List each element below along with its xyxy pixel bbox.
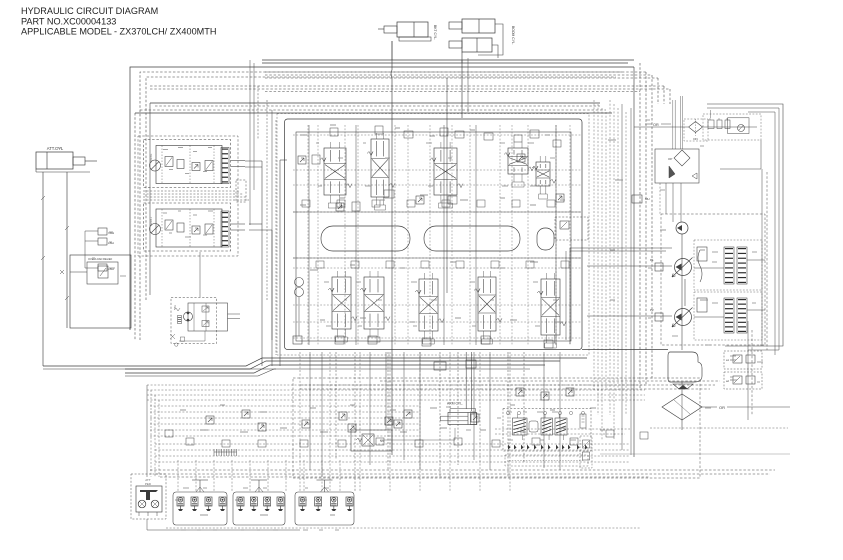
wire block bottom line xyxy=(582,349,668,351)
motor swing box xyxy=(170,252,240,346)
wire pilot risers xyxy=(178,460,340,492)
svg-text:OR: OR xyxy=(653,123,659,127)
wire bucket cylinder line xyxy=(391,41,392,455)
valve mid components xyxy=(298,130,650,211)
node OR top xyxy=(645,123,671,127)
wire regulator connects xyxy=(694,260,765,317)
svg-text:DN: DN xyxy=(693,137,697,141)
valve solenoid cluster lower xyxy=(505,455,588,466)
valve pilot cluster 1 xyxy=(173,480,227,525)
valve spool SP9 xyxy=(474,271,502,344)
label texture marks 2 xyxy=(57,120,764,530)
svg-text:HYDRAULIC CIRCUIT DIAGRAM: HYDRAULIC CIRCUIT DIAGRAM xyxy=(21,6,158,16)
valve spool SP2 xyxy=(367,133,395,210)
valve block inner solid xyxy=(296,132,571,341)
wire left-to-center 1 xyxy=(245,161,272,366)
wire arm line2 xyxy=(380,428,455,440)
wire top bus solid a xyxy=(262,59,634,61)
gallery racetrack right xyxy=(424,226,520,251)
valve pilot checks xyxy=(206,388,574,432)
wire outer solid frame xyxy=(130,67,634,330)
valve spool SP10 xyxy=(537,273,566,348)
valve pedal box ATT xyxy=(131,474,300,530)
valve block small row upper xyxy=(302,200,555,207)
regulator stack R1 xyxy=(694,240,762,290)
title text block xyxy=(21,6,216,37)
valve spool SP5 xyxy=(532,156,556,199)
wire far-right frame xyxy=(707,104,783,420)
wire main bus band xyxy=(43,358,587,376)
svg-text:P1: P1 xyxy=(650,258,654,262)
pump gear P3 xyxy=(676,222,688,234)
label texture marks xyxy=(175,125,737,515)
valve spool SP1 xyxy=(320,142,352,208)
svg-text:ARM CYL.: ARM CYL. xyxy=(447,402,463,406)
wire left solid box xyxy=(70,255,131,328)
valve aux box 1 xyxy=(724,351,762,369)
pump main P2 xyxy=(672,308,693,328)
valve pilot narrow box xyxy=(580,436,592,468)
valve block outer dashed xyxy=(277,114,589,356)
valve pilot squares xyxy=(165,430,648,447)
wire bottom dashed bus 1 xyxy=(300,381,720,389)
wire block internal horizontals xyxy=(293,135,581,338)
svg-text:PART NO.XC00004133: PART NO.XC00004133 xyxy=(21,16,116,26)
wire block internal verticals xyxy=(308,125,570,345)
wire pump shaft xyxy=(682,234,685,350)
gallery racetrack small xyxy=(537,228,554,250)
regulator stack R2 xyxy=(694,292,762,340)
wire center drops xyxy=(310,352,560,492)
wire pump frame bottom xyxy=(650,427,788,429)
svg-text:MU: MU xyxy=(645,197,650,201)
svg-text:BOOM CYL.: BOOM CYL. xyxy=(511,26,515,45)
fitting pump P2 port xyxy=(587,308,672,321)
wire left boxes outline xyxy=(138,136,238,256)
svg-text:P2: P2 xyxy=(650,308,654,312)
svg-text:APPLICABLE MODEL - ZX370LCH/ Z: APPLICABLE MODEL - ZX370LCH/ ZX400MTH xyxy=(21,27,216,37)
valve spool SP6 xyxy=(328,271,357,342)
valve pilot cluster 2 xyxy=(233,480,285,525)
cooler box xyxy=(655,149,699,183)
wire top bus dashed group xyxy=(150,72,670,92)
wire pilot frame xyxy=(293,378,700,478)
connector comb xyxy=(214,449,237,456)
valve travel-motor box 2 xyxy=(144,203,246,251)
wire misc diagonal drops xyxy=(43,60,287,369)
valve spool SP7 xyxy=(360,271,390,342)
wire outer dashed frame 1 xyxy=(140,72,622,340)
svg-text:PED: PED xyxy=(145,482,152,486)
valve block outline xyxy=(285,119,583,350)
wire outer dashed frame 2 xyxy=(146,77,616,300)
valve spool SP3 xyxy=(430,142,463,208)
svg-text:OP: OP xyxy=(668,157,672,161)
gallery racetrack left xyxy=(321,226,410,251)
wire filter connects xyxy=(682,382,790,430)
filter DR diamond xyxy=(684,119,708,141)
wire right vertical bundle xyxy=(594,100,631,455)
valve pilot cluster 3 xyxy=(295,480,354,525)
wire cooler drops xyxy=(660,96,683,222)
wire bottom dashed bus 2 xyxy=(150,470,775,477)
valve solenoid right xyxy=(351,430,392,451)
fitting group left xyxy=(85,228,114,271)
valve spool SP8 xyxy=(415,273,444,344)
cylinder BKT.CYL xyxy=(378,22,437,41)
svg-text:OR: OR xyxy=(719,405,725,410)
wire top right connects xyxy=(634,110,757,127)
fitting pump P1 port xyxy=(587,258,672,271)
wire boom line 2 xyxy=(467,58,469,112)
wire arm cylinder line xyxy=(466,352,471,411)
wire top bus solid b xyxy=(262,62,628,64)
cylinder ARM.CYL xyxy=(440,402,477,425)
valve pump inlet box xyxy=(555,217,588,240)
filter main diamond xyxy=(662,394,702,420)
valve overload-relief box xyxy=(60,257,118,284)
valve spool SP4 xyxy=(504,142,534,187)
pump group dashed box xyxy=(661,214,765,345)
valve travel-motor box 1 xyxy=(144,140,246,188)
valve block small row lower xyxy=(316,261,569,268)
valve row top right xyxy=(703,114,761,140)
wire pilot bottom bus xyxy=(166,527,640,529)
wire right verticals top xyxy=(634,63,670,457)
coupling bowtie xyxy=(673,384,693,389)
pump main P1 xyxy=(672,258,693,278)
svg-text:SW: SW xyxy=(173,305,177,310)
valve solenoid cluster xyxy=(503,409,591,452)
engine block xyxy=(668,352,702,382)
svg-text:ATT.CYL: ATT.CYL xyxy=(47,146,64,151)
svg-text:OVERLOAD RELIEF: OVERLOAD RELIEF xyxy=(88,257,113,261)
wire mid bus band xyxy=(135,103,612,340)
wire top cylinder bus joins xyxy=(392,41,462,293)
wire boom cylinder line xyxy=(461,52,463,118)
wire pilot long line xyxy=(600,453,790,455)
valve bottom caps xyxy=(335,336,553,370)
valve aux box 2 xyxy=(724,372,762,389)
svg-text:BKT CYL.: BKT CYL. xyxy=(433,25,437,40)
wire left boxes dashed bus xyxy=(143,180,249,202)
valve pilot caps top xyxy=(330,126,561,147)
wire left cylinder lines xyxy=(41,172,69,366)
svg-text:SV: SV xyxy=(380,439,384,443)
wire pilot dashed net xyxy=(147,352,645,492)
valve left circles xyxy=(293,278,304,345)
cylinder ATT.CYL xyxy=(36,152,97,172)
cylinder BOOM.CYL pair xyxy=(449,19,515,58)
wire pump feed pair xyxy=(566,248,672,344)
